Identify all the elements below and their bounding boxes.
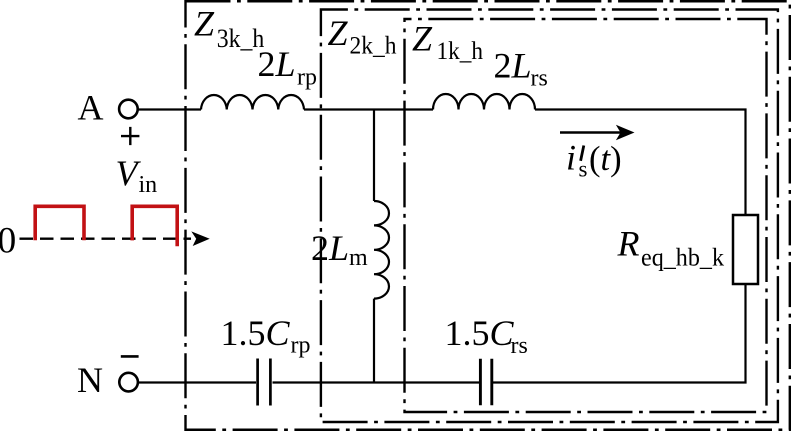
svg-text:Z: Z [412,19,433,59]
svg-text:2L: 2L [494,46,532,86]
label Z_1k_h [412,19,483,65]
svg-text:1.5C: 1.5C [221,313,291,353]
svg-text:in: in [139,172,158,198]
svg-text:2L: 2L [258,44,296,84]
svg-text:(t): (t) [589,140,622,178]
wire L_rs to resistor top [535,110,746,216]
capacitor 1.5C_rp plates [258,359,271,406]
wire L_m to bottom rail [373,299,375,383]
inductor 2L_rs [433,94,535,110]
inductor 2L_m [374,201,389,299]
svg-text:1k_h: 1k_h [437,38,484,65]
label 1.5C_rp [221,313,311,359]
wire N to cap C_rp [138,381,256,383]
inductor 2L_rp [201,95,304,110]
impedance boundary box Z1k_h [405,19,767,412]
current arrow i_s [560,125,635,140]
label i_s prime of t [566,138,622,182]
plus sign [121,127,139,145]
wire A to L_rp [138,108,201,110]
svg-text:rs: rs [511,333,528,359]
impedance boundary box Z2k_h [321,10,778,423]
svg-text:1.5C: 1.5C [445,313,515,353]
label 1.5C_rs [445,313,528,359]
terminal N circle [119,373,138,392]
wire cap C_rs to node at x=374 and on to cap C_rp [273,381,480,383]
svg-text:s: s [579,157,588,182]
svg-text:i: i [566,138,576,178]
svg-text:0: 0 [0,221,16,262]
wire resistor bottom to bottom rail [493,284,746,383]
capacitor 1.5C_rs plates [480,359,491,405]
impedance boundary box Z3k_h [186,1,790,430]
label Z_3k_h [194,4,264,54]
label 2L_rs [494,46,548,92]
svg-text:rs: rs [531,66,548,92]
svg-text:rp: rp [291,333,311,359]
label 2L_m [311,228,368,271]
svg-text:eq_hb_k: eq_hb_k [641,245,724,272]
label V_in [116,153,158,198]
red square pulse 2 of Vin waveform [132,206,177,246]
resistor R_eq_hb_k [733,215,758,284]
svg-text:Z: Z [328,13,349,53]
label Z_2k_h [328,13,397,59]
svg-text:2k_h: 2k_h [350,33,397,60]
svg-text:Z: Z [194,4,215,44]
svg-text:rp: rp [297,64,317,90]
minus sign [121,355,139,358]
wire L_rp to L_rs with node at x=374 [304,108,433,110]
svg-text:N: N [77,360,103,400]
dashed time axis [20,238,192,240]
svg-text:2L: 2L [311,228,349,268]
red square pulse 1 of Vin waveform [35,206,84,240]
label R_eq_hb_k [617,224,725,272]
terminal A circle [119,100,138,119]
svg-text:m: m [349,245,368,271]
svg-text:A: A [78,88,104,128]
label 2L_rp [258,44,318,91]
svg-text:R: R [617,224,640,264]
wire branch from top node down to L_m [373,110,375,202]
time axis arrowhead [191,231,209,246]
